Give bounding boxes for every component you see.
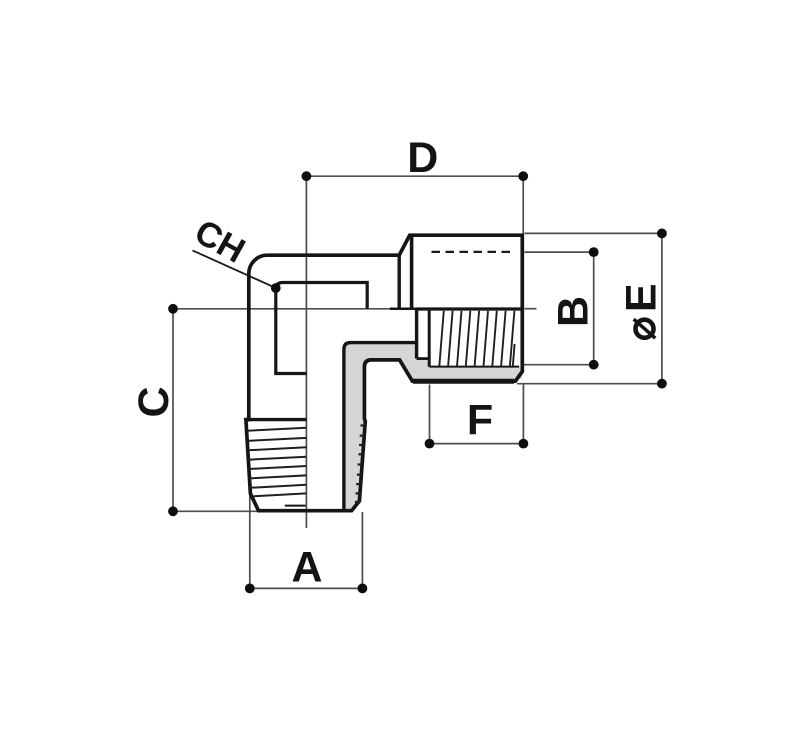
svg-text:E: E bbox=[618, 283, 666, 312]
svg-text:F: F bbox=[467, 397, 493, 445]
svg-text:B: B bbox=[550, 296, 598, 327]
svg-text:D: D bbox=[407, 134, 438, 182]
svg-text:C: C bbox=[130, 386, 178, 417]
svg-text:A: A bbox=[291, 544, 322, 592]
